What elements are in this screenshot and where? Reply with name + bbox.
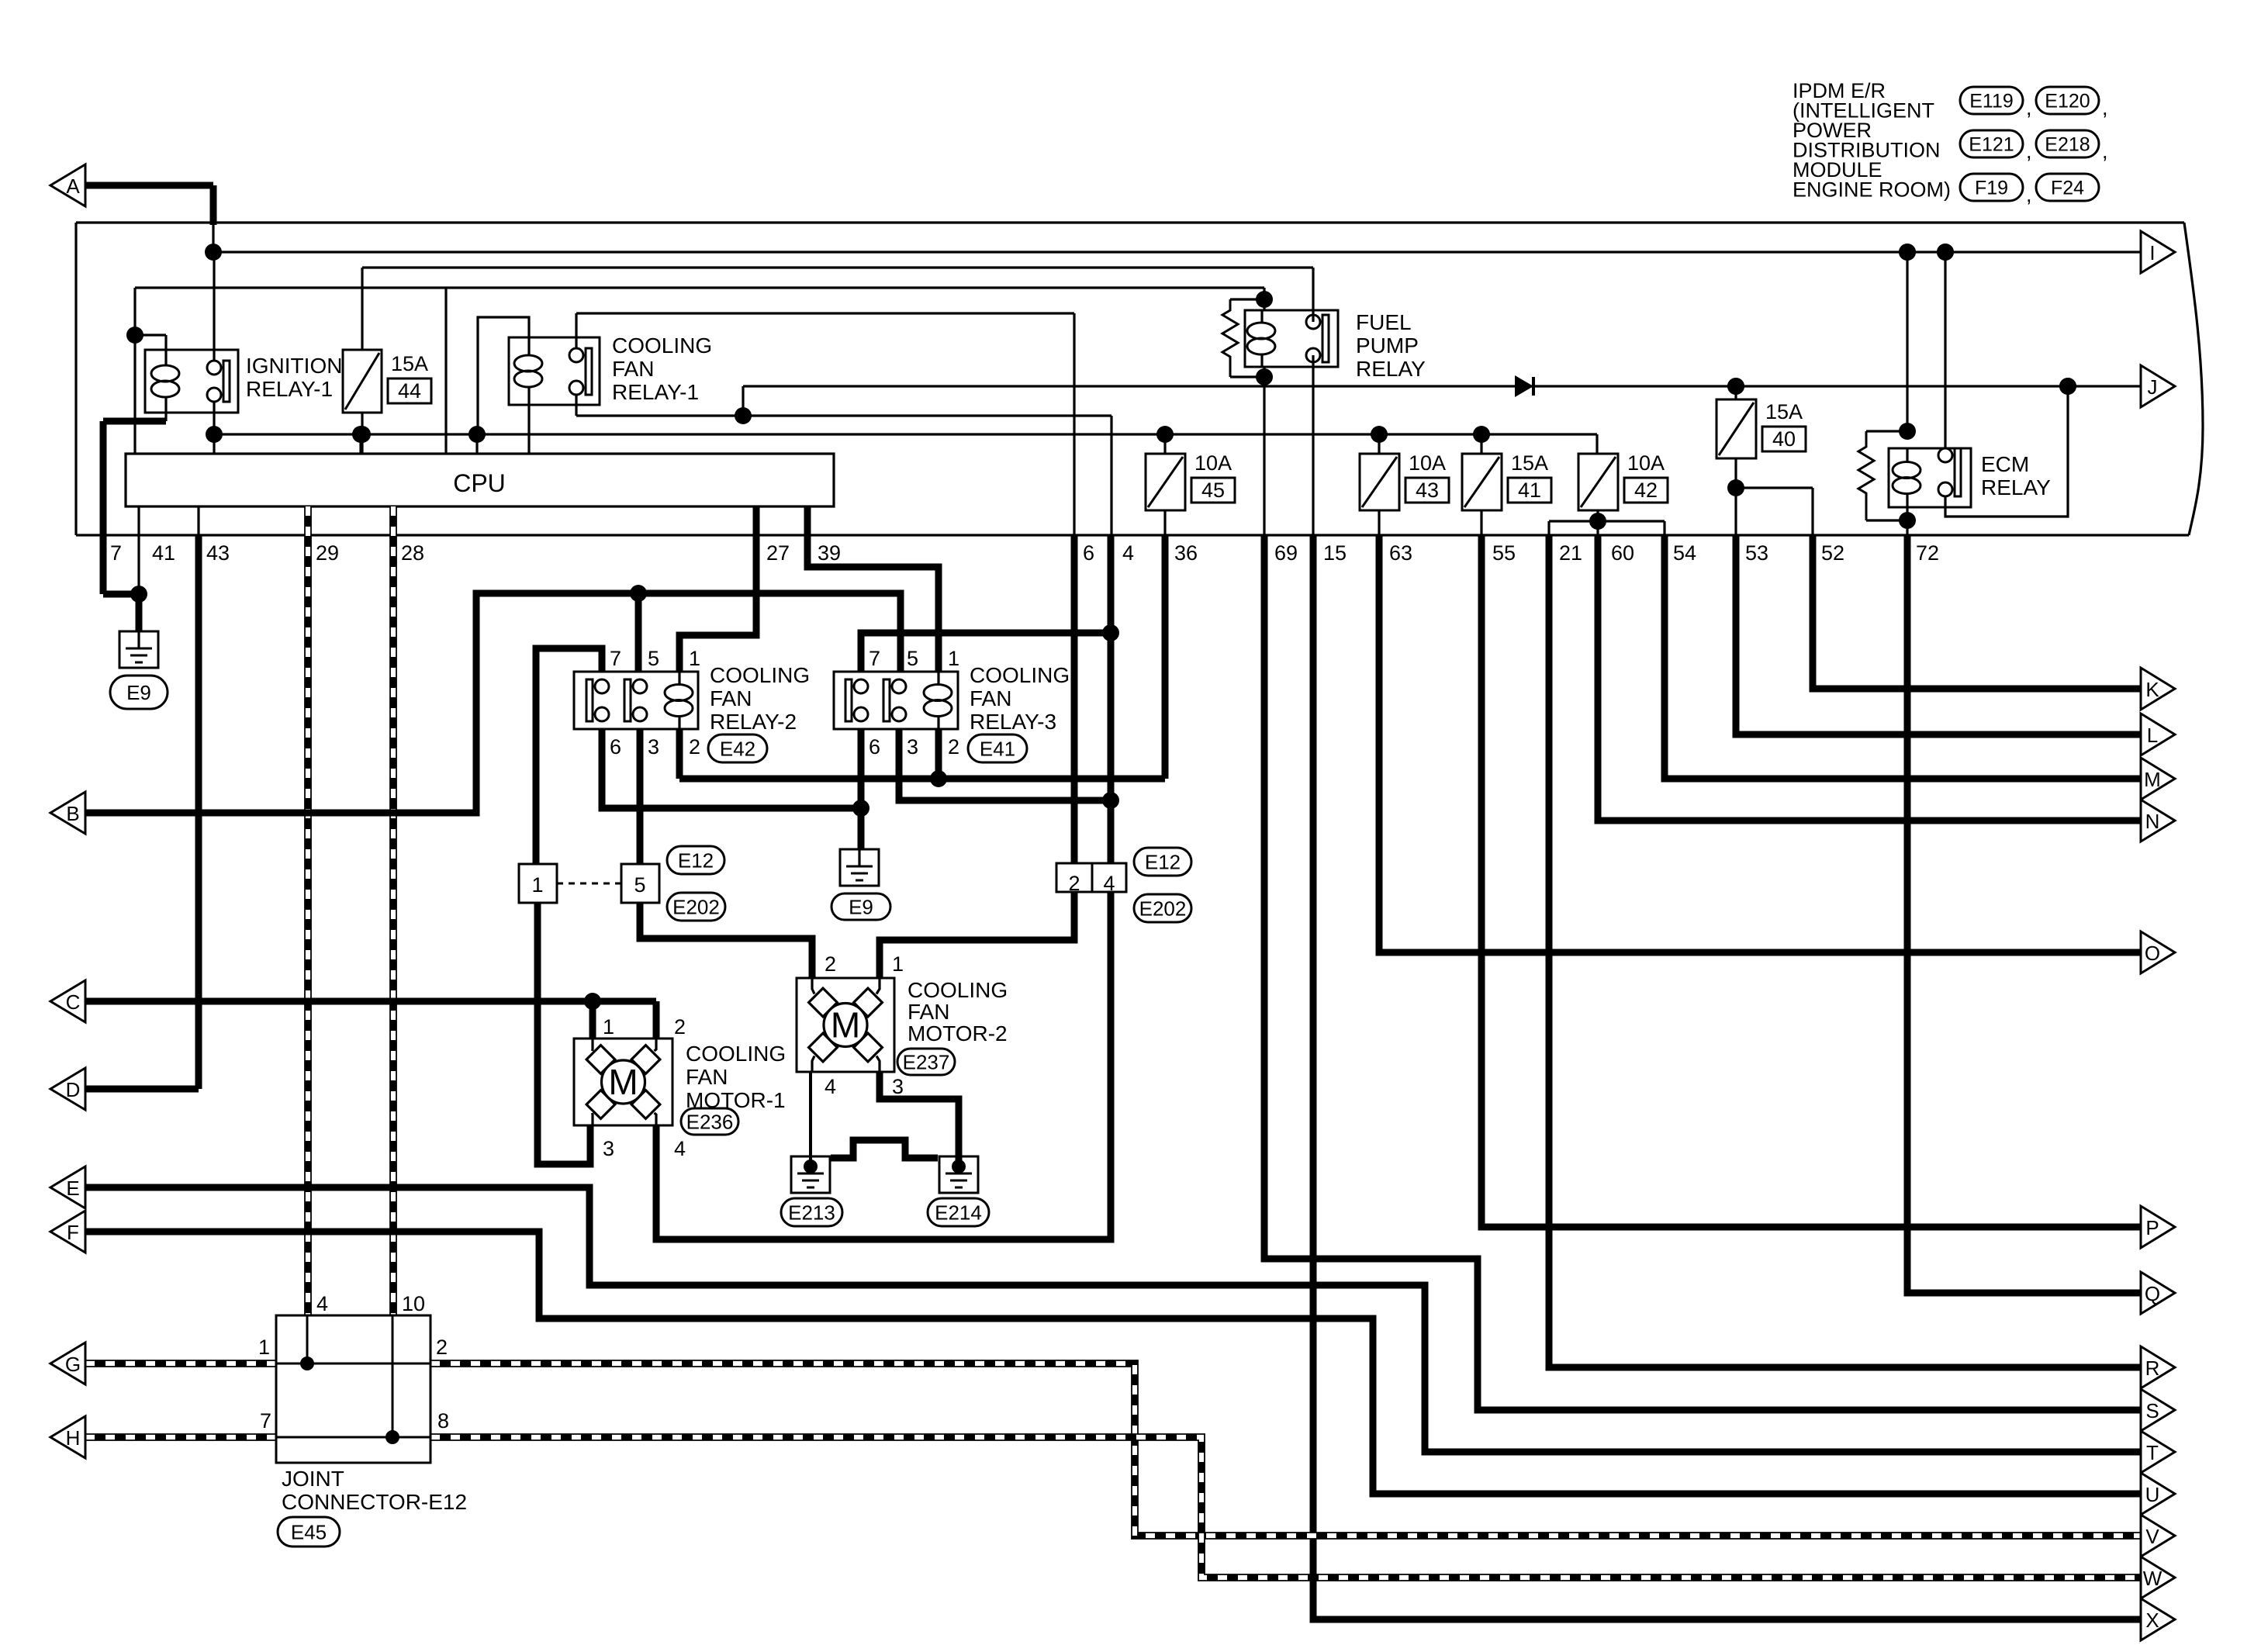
svg-text:V: V [2145, 1525, 2159, 1548]
svg-text:69: 69 [1274, 541, 1298, 565]
svg-text:7: 7 [110, 541, 122, 565]
svg-text:21: 21 [1559, 541, 1582, 565]
svg-text:I: I [2149, 241, 2155, 264]
svg-text:FAN: FAN [686, 1065, 728, 1089]
svg-text:2: 2 [1068, 872, 1080, 895]
svg-text:10A: 10A [1627, 451, 1665, 475]
svg-text:JOINT: JOINT [282, 1467, 344, 1491]
svg-text:E213: E213 [788, 1201, 835, 1224]
svg-text:10: 10 [402, 1292, 425, 1315]
svg-text:44: 44 [398, 379, 421, 403]
svg-text:6: 6 [1083, 541, 1094, 565]
svg-text:,: , [2026, 96, 2032, 119]
svg-text:29: 29 [316, 541, 339, 565]
svg-text:2: 2 [825, 952, 836, 976]
svg-text:5: 5 [634, 873, 645, 897]
svg-text:7: 7 [260, 1409, 271, 1433]
svg-text:F19: F19 [1975, 178, 2008, 199]
svg-text:15A: 15A [391, 352, 428, 375]
svg-text:E12: E12 [678, 848, 714, 872]
svg-text:K: K [2145, 678, 2159, 701]
svg-text:45: 45 [1201, 479, 1225, 502]
svg-text:RELAY-2: RELAY-2 [710, 710, 797, 734]
svg-text:ECM: ECM [1981, 452, 2029, 476]
svg-text:RELAY-3: RELAY-3 [970, 710, 1056, 734]
svg-text:54: 54 [1673, 541, 1696, 565]
svg-text:ENGINE ROOM): ENGINE ROOM) [1793, 178, 1951, 202]
svg-text:7: 7 [610, 647, 621, 670]
svg-text:72: 72 [1916, 541, 1939, 565]
svg-text:60: 60 [1611, 541, 1634, 565]
svg-text:10A: 10A [1194, 451, 1232, 475]
svg-text:RELAY: RELAY [1356, 357, 1426, 381]
svg-text:COOLING: COOLING [686, 1042, 786, 1066]
svg-text:36: 36 [1174, 541, 1198, 565]
svg-text:E202: E202 [1139, 897, 1187, 920]
svg-text:RELAY: RELAY [1981, 475, 2051, 499]
svg-text:A: A [66, 175, 80, 198]
svg-text:E121: E121 [1969, 134, 2014, 156]
svg-text:,: , [2102, 140, 2108, 163]
svg-text:FAN: FAN [970, 686, 1011, 710]
svg-text:COOLING: COOLING [710, 663, 810, 687]
svg-text:E42: E42 [720, 737, 755, 760]
svg-text:IGNITION: IGNITION [246, 354, 342, 378]
svg-text:4: 4 [1103, 872, 1115, 895]
svg-text:4: 4 [1122, 541, 1134, 565]
svg-text:41: 41 [152, 541, 175, 565]
svg-text:2: 2 [948, 735, 959, 759]
svg-text:4: 4 [825, 1075, 836, 1098]
svg-text:E9: E9 [126, 681, 151, 704]
svg-text:10A: 10A [1409, 451, 1446, 475]
svg-text:8: 8 [437, 1409, 449, 1433]
svg-text:5: 5 [648, 647, 659, 670]
svg-text:43: 43 [206, 541, 230, 565]
svg-text:M: M [2144, 768, 2161, 791]
svg-text:P: P [2145, 1216, 2159, 1239]
svg-text:3: 3 [907, 735, 918, 759]
svg-text:O: O [2145, 942, 2160, 965]
svg-text:7: 7 [869, 647, 880, 670]
svg-text:FUEL: FUEL [1356, 310, 1412, 334]
svg-text:D: D [66, 1078, 81, 1101]
svg-text:,: , [2026, 183, 2032, 206]
svg-text:H: H [66, 1426, 81, 1450]
svg-text:E120: E120 [2045, 91, 2090, 112]
svg-text:,: , [2026, 140, 2032, 163]
svg-text:L: L [2147, 724, 2158, 747]
svg-text:C: C [66, 990, 81, 1014]
svg-text:J: J [2148, 375, 2158, 399]
svg-text:43: 43 [1416, 479, 1439, 502]
svg-text:N: N [2145, 810, 2160, 833]
svg-text:FAN: FAN [612, 357, 654, 381]
svg-text:42: 42 [1634, 479, 1658, 502]
svg-text:5: 5 [907, 647, 918, 670]
svg-text:28: 28 [401, 541, 424, 565]
svg-text:1: 1 [892, 952, 904, 976]
svg-text:6: 6 [610, 735, 621, 759]
svg-text:G: G [65, 1353, 81, 1376]
svg-text:40: 40 [1772, 427, 1796, 451]
svg-text:E218: E218 [2045, 134, 2090, 156]
svg-text:55: 55 [1492, 541, 1516, 565]
svg-text:E12: E12 [1145, 850, 1181, 873]
svg-text:PUMP: PUMP [1356, 334, 1419, 358]
svg-text:1: 1 [603, 1015, 614, 1039]
svg-text:RELAY-1: RELAY-1 [612, 380, 699, 404]
svg-text:3: 3 [892, 1075, 904, 1098]
svg-text:2: 2 [689, 735, 700, 759]
svg-text:4: 4 [674, 1137, 686, 1160]
svg-text:63: 63 [1389, 541, 1412, 565]
svg-text:M: M [608, 1062, 638, 1102]
svg-text:E41: E41 [980, 737, 1015, 760]
svg-text:U: U [2145, 1483, 2160, 1506]
svg-text:1: 1 [689, 647, 700, 670]
svg-text:W: W [2143, 1567, 2162, 1590]
svg-text:6: 6 [869, 735, 880, 759]
svg-text:3: 3 [603, 1137, 614, 1160]
svg-text:E202: E202 [672, 895, 720, 918]
svg-text:X: X [2145, 1609, 2159, 1632]
svg-text:CONNECTOR-E12: CONNECTOR-E12 [282, 1490, 467, 1514]
svg-text:15A: 15A [1511, 451, 1548, 475]
svg-text:T: T [2146, 1441, 2159, 1464]
svg-text:15: 15 [1323, 541, 1347, 565]
svg-text:2: 2 [436, 1336, 448, 1359]
svg-text:RELAY-1: RELAY-1 [246, 377, 333, 401]
svg-text:2: 2 [674, 1015, 686, 1039]
svg-text:41: 41 [1518, 479, 1541, 502]
svg-text:52: 52 [1821, 541, 1844, 565]
svg-text:M: M [831, 1005, 860, 1045]
svg-text:4: 4 [316, 1292, 328, 1315]
svg-text:COOLING: COOLING [612, 334, 712, 358]
svg-text:1: 1 [531, 873, 543, 897]
svg-text:E236: E236 [686, 1110, 734, 1133]
svg-text:MOTOR-2: MOTOR-2 [908, 1021, 1008, 1045]
svg-text:E237: E237 [903, 1050, 950, 1073]
svg-text:R: R [2145, 1357, 2160, 1380]
svg-text:S: S [2145, 1399, 2159, 1422]
svg-text:39: 39 [818, 541, 841, 565]
svg-text:E9: E9 [849, 895, 873, 918]
svg-text:3: 3 [648, 735, 659, 759]
svg-text:F24: F24 [2051, 178, 2084, 199]
svg-text:COOLING: COOLING [970, 663, 1070, 687]
svg-text:Q: Q [2145, 1282, 2160, 1305]
svg-text:B: B [66, 802, 79, 825]
svg-text:27: 27 [766, 541, 790, 565]
svg-text:FAN: FAN [710, 686, 752, 710]
svg-text:FAN: FAN [908, 1000, 949, 1024]
svg-text:E214: E214 [935, 1201, 982, 1224]
svg-text:1: 1 [948, 647, 959, 670]
svg-text:E45: E45 [291, 1520, 327, 1543]
svg-text:1: 1 [258, 1336, 270, 1359]
svg-text:F: F [67, 1221, 79, 1244]
svg-text:COOLING: COOLING [908, 978, 1008, 1002]
svg-text:53: 53 [1745, 541, 1768, 565]
svg-text:E119: E119 [1969, 91, 2014, 112]
svg-text:15A: 15A [1765, 400, 1803, 423]
svg-text:CPU: CPU [453, 469, 506, 497]
svg-text:E: E [66, 1177, 79, 1200]
svg-text:,: , [2102, 96, 2108, 119]
